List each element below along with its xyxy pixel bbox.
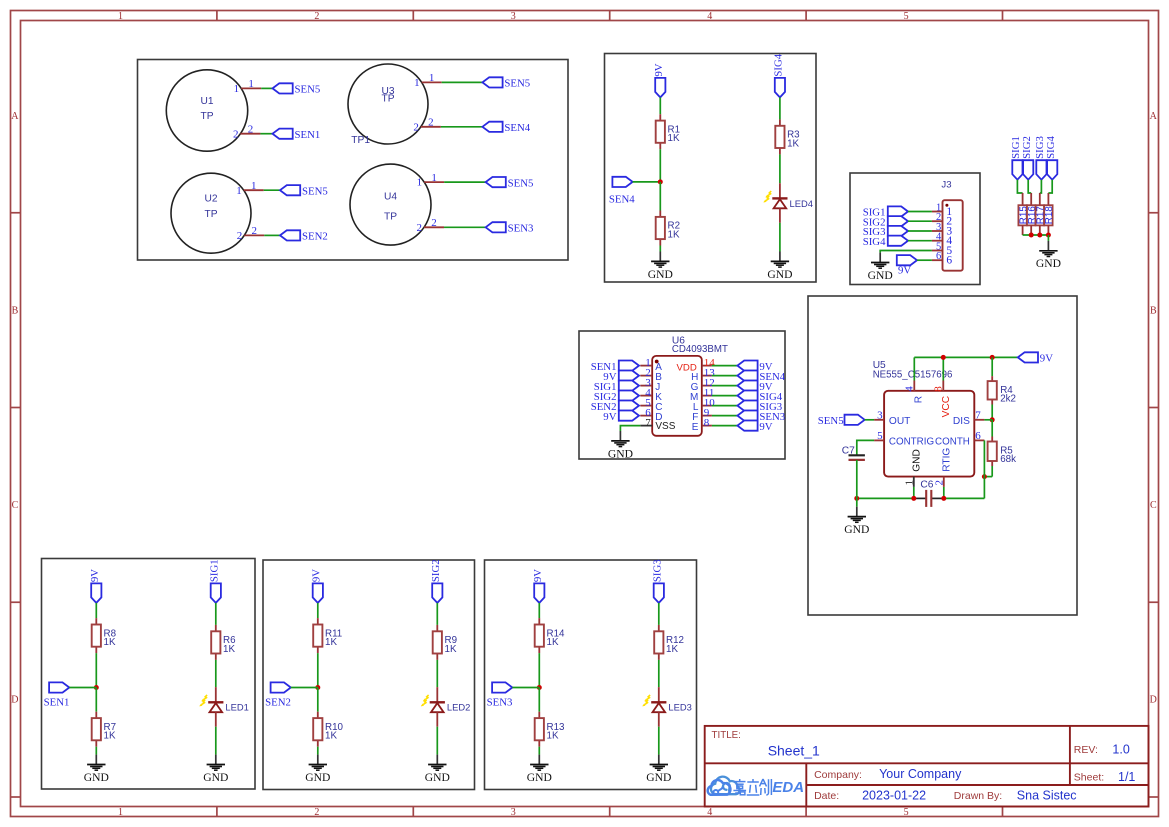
svg-text:2: 2 <box>417 222 423 234</box>
svg-text:GND: GND <box>844 523 869 536</box>
svg-text:9V: 9V <box>603 411 616 423</box>
svg-text:GND: GND <box>527 771 552 784</box>
svg-text:TITLE:: TITLE: <box>712 730 741 741</box>
svg-text:2: 2 <box>413 121 419 133</box>
svg-text:3: 3 <box>511 807 516 818</box>
svg-text:TP: TP <box>200 111 213 122</box>
svg-text:GND: GND <box>911 449 922 472</box>
svg-text:GND: GND <box>767 268 792 281</box>
svg-text:1: 1 <box>234 83 240 95</box>
svg-text:SIG2: SIG2 <box>430 559 442 582</box>
svg-text:B: B <box>1150 306 1157 317</box>
svg-text:E: E <box>692 422 699 433</box>
svg-text:1K: 1K <box>104 731 116 742</box>
svg-text:GND: GND <box>868 269 893 282</box>
svg-text:Sheet_1: Sheet_1 <box>768 743 820 759</box>
svg-text:SEN5: SEN5 <box>504 78 530 90</box>
svg-text:GND: GND <box>305 771 330 784</box>
svg-text:CONTH: CONTH <box>935 436 970 447</box>
svg-text:1K: 1K <box>666 644 678 655</box>
svg-text:J3: J3 <box>941 179 951 190</box>
svg-text:SEN4: SEN4 <box>609 194 635 206</box>
svg-text:TP: TP <box>384 211 397 222</box>
svg-text:SEN5: SEN5 <box>508 177 534 189</box>
svg-text:EDA: EDA <box>772 779 804 796</box>
svg-text:1K: 1K <box>325 637 337 648</box>
svg-text:SIG1: SIG1 <box>209 559 221 582</box>
svg-text:2: 2 <box>428 117 434 129</box>
svg-text:LED2: LED2 <box>447 702 470 713</box>
svg-text:1K: 1K <box>223 644 235 655</box>
svg-text:CONTRIG: CONTRIG <box>889 436 934 447</box>
svg-text:SEN3: SEN3 <box>508 223 534 235</box>
svg-text:4: 4 <box>707 11 712 22</box>
svg-text:TP: TP <box>381 94 394 105</box>
svg-text:1: 1 <box>417 177 423 189</box>
svg-text:SIG4: SIG4 <box>1045 136 1057 159</box>
svg-text:9V: 9V <box>898 265 911 277</box>
svg-text:GND: GND <box>648 268 673 281</box>
svg-text:R18: R18 <box>1044 206 1055 225</box>
svg-text:2023-01-22: 2023-01-22 <box>862 789 926 803</box>
svg-text:2: 2 <box>314 807 319 818</box>
svg-text:1: 1 <box>903 480 915 486</box>
svg-text:SEN1: SEN1 <box>295 129 321 141</box>
svg-text:LED1: LED1 <box>225 702 248 713</box>
svg-text:REV:: REV: <box>1074 744 1098 756</box>
svg-text:SEN2: SEN2 <box>265 697 291 709</box>
svg-text:A: A <box>11 111 19 122</box>
svg-text:SIG2: SIG2 <box>1021 136 1033 159</box>
svg-text:SEN3: SEN3 <box>487 697 513 709</box>
svg-text:6: 6 <box>975 430 981 442</box>
svg-text:1K: 1K <box>787 138 799 149</box>
svg-text:GND: GND <box>608 447 633 460</box>
svg-text:Drawn By:: Drawn By: <box>954 790 1002 802</box>
svg-text:Company:: Company: <box>814 769 862 781</box>
svg-text:1K: 1K <box>547 637 559 648</box>
svg-text:GND: GND <box>646 771 671 784</box>
svg-text:Sheet:: Sheet: <box>1074 772 1104 784</box>
svg-text:3: 3 <box>511 11 516 22</box>
svg-text:C: C <box>12 500 19 511</box>
svg-text:9V: 9V <box>89 569 101 582</box>
svg-text:SEN4: SEN4 <box>504 122 530 134</box>
svg-text:GND: GND <box>1036 257 1061 270</box>
svg-text:5: 5 <box>904 807 909 818</box>
svg-text:1: 1 <box>429 72 435 84</box>
svg-text:TP: TP <box>204 209 217 220</box>
svg-text:1: 1 <box>118 807 123 818</box>
svg-text:VCC: VCC <box>941 396 952 418</box>
svg-text:1K: 1K <box>547 731 559 742</box>
svg-text:U1: U1 <box>200 96 213 107</box>
svg-text:SEN5: SEN5 <box>818 415 844 427</box>
svg-text:2: 2 <box>314 11 319 22</box>
svg-text:2: 2 <box>233 128 239 140</box>
svg-text:1: 1 <box>251 180 257 192</box>
svg-text:GND: GND <box>84 771 109 784</box>
svg-text:9V: 9V <box>1040 353 1053 365</box>
svg-text:9V: 9V <box>653 63 665 76</box>
svg-text:1: 1 <box>431 172 437 184</box>
svg-text:VDD: VDD <box>677 362 697 373</box>
svg-text:C: C <box>1150 500 1157 511</box>
svg-text:1K: 1K <box>325 731 337 742</box>
svg-text:LED3: LED3 <box>668 702 691 713</box>
svg-text:SIG3: SIG3 <box>652 559 664 582</box>
svg-text:C7: C7 <box>842 446 855 457</box>
svg-text:SEN5: SEN5 <box>295 84 321 96</box>
svg-text:9V: 9V <box>759 421 772 433</box>
svg-text:8: 8 <box>933 386 945 392</box>
svg-text:1K: 1K <box>445 644 457 655</box>
svg-text:2k2: 2k2 <box>1000 394 1016 405</box>
svg-text:D: D <box>1150 695 1157 706</box>
svg-text:1.0: 1.0 <box>1112 743 1129 757</box>
svg-text:A: A <box>1150 111 1158 122</box>
svg-text:VSS: VSS <box>655 421 675 432</box>
svg-text:GND: GND <box>203 771 228 784</box>
svg-text:C6: C6 <box>920 480 933 491</box>
svg-text:2: 2 <box>933 480 945 486</box>
svg-text:1/1: 1/1 <box>1118 770 1135 784</box>
svg-text:1K: 1K <box>668 133 680 144</box>
svg-text:7: 7 <box>645 417 651 429</box>
svg-text:NE555_C5157696: NE555_C5157696 <box>873 370 953 381</box>
svg-text:3: 3 <box>877 409 883 421</box>
svg-text:2: 2 <box>237 230 243 242</box>
svg-text:SEN1: SEN1 <box>44 697 70 709</box>
svg-text:Sna Sistec: Sna Sistec <box>1017 789 1077 803</box>
svg-text:R: R <box>914 396 925 403</box>
svg-text:68k: 68k <box>1000 454 1016 465</box>
svg-text:SEN5: SEN5 <box>302 185 328 197</box>
svg-text:Date:: Date: <box>814 790 839 802</box>
svg-text:U2: U2 <box>204 193 217 204</box>
svg-text:1: 1 <box>414 77 420 89</box>
svg-text:Your Company: Your Company <box>879 767 962 781</box>
svg-text:6: 6 <box>936 251 941 262</box>
svg-text:D: D <box>11 695 18 706</box>
svg-text:SIG4: SIG4 <box>773 53 785 76</box>
svg-text:1: 1 <box>248 78 254 90</box>
svg-text:CD4093BMT: CD4093BMT <box>672 344 728 355</box>
svg-text:9V: 9V <box>311 569 323 582</box>
svg-text:GND: GND <box>425 771 450 784</box>
svg-text:1: 1 <box>236 185 242 197</box>
svg-text:5: 5 <box>904 11 909 22</box>
svg-text:B: B <box>12 306 19 317</box>
svg-text:U4: U4 <box>384 192 397 203</box>
svg-text:SIG4: SIG4 <box>863 236 886 248</box>
svg-text:SEN2: SEN2 <box>302 231 328 243</box>
svg-text:OUT: OUT <box>889 416 911 427</box>
svg-text:RTIG: RTIG <box>941 448 952 472</box>
svg-text:2: 2 <box>248 124 254 136</box>
svg-text:LED4: LED4 <box>790 198 813 209</box>
svg-text:DIS: DIS <box>953 416 970 427</box>
svg-text:1: 1 <box>118 11 123 22</box>
svg-text:2: 2 <box>431 217 437 229</box>
svg-text:2: 2 <box>252 225 258 237</box>
svg-text:TP1: TP1 <box>351 135 370 146</box>
svg-text:4: 4 <box>904 386 916 392</box>
svg-text:8: 8 <box>704 417 710 429</box>
svg-text:1K: 1K <box>668 229 680 240</box>
svg-text:6: 6 <box>946 255 952 267</box>
svg-text:1K: 1K <box>104 637 116 648</box>
svg-text:7: 7 <box>975 409 981 421</box>
svg-text:4: 4 <box>707 807 712 818</box>
svg-text:5: 5 <box>877 430 883 442</box>
svg-text:9V: 9V <box>532 569 544 582</box>
